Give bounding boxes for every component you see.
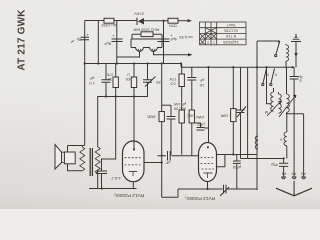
svg-text:Ω50: Ω50	[169, 24, 177, 29]
svg-text:8µF: 8µF	[103, 42, 111, 47]
svg-text:0,5: 0,5	[171, 82, 176, 86]
svg-text:µF: µF	[89, 76, 94, 81]
svg-text:RV12 P2000/₂: RV12 P2000/₂	[114, 192, 144, 198]
svg-text:A2: A2	[291, 172, 297, 177]
svg-text:25: 25	[156, 80, 161, 85]
svg-text:17M: 17M	[170, 77, 177, 81]
svg-text:2: 2	[207, 41, 209, 45]
svg-text:M: M	[265, 110, 268, 115]
svg-text:UWč: UWč	[187, 114, 195, 118]
svg-text:µF0: µF0	[197, 123, 205, 128]
svg-text:≠5µ: ≠5µ	[270, 163, 277, 168]
svg-text:µF08: µF08	[233, 165, 241, 169]
svg-text:RV12 P2000/₁: RV12 P2000/₁	[185, 195, 215, 201]
svg-text:A1: A1	[281, 172, 287, 177]
svg-text:1 0: 1 0	[88, 81, 94, 86]
svg-text:UWi: UWi	[221, 114, 229, 119]
svg-text:3MΩ: 3MΩ	[147, 114, 156, 119]
svg-text:µF: µF	[165, 161, 170, 166]
svg-text:14(09/25: 14(09/25	[222, 40, 239, 45]
svg-text:005: 005	[126, 77, 132, 81]
svg-text:5: 5	[275, 73, 277, 77]
svg-text:8.719: 8.719	[225, 34, 236, 39]
svg-text:ca 0,33: ca 0,33	[179, 35, 193, 40]
svg-text:4-5-7: 4-5-7	[111, 176, 121, 181]
svg-text:5µ: 5µ	[299, 75, 303, 79]
svg-text:6: 6	[299, 79, 301, 83]
svg-text:A3: A3	[300, 172, 306, 177]
svg-text:50µ 50: 50µ 50	[173, 107, 186, 112]
svg-text:+: +	[112, 34, 115, 39]
svg-text:10: 10	[199, 83, 204, 88]
svg-text:2×SV: 2×SV	[134, 12, 144, 17]
svg-text:9uo7: 9uo7	[226, 23, 236, 28]
svg-text:+: +	[86, 32, 89, 37]
svg-text:30: 30	[108, 77, 112, 81]
svg-text:8µ: 8µ	[76, 38, 81, 43]
svg-text:AT 217 GWK: AT 217 GWK	[17, 9, 28, 71]
svg-text:M.1736: M.1736	[224, 29, 238, 34]
svg-text:µF: µF	[199, 78, 204, 83]
svg-text:V: V	[279, 138, 282, 143]
svg-text:27K: 27K	[106, 73, 113, 77]
svg-text:+: +	[170, 33, 173, 38]
svg-text:UWč: UWč	[196, 115, 205, 120]
svg-text:1: 1	[213, 41, 215, 45]
svg-text:µF UW: µF UW	[174, 102, 187, 107]
svg-text:Au 1292: Au 1292	[101, 23, 117, 28]
svg-text:3: 3	[201, 41, 203, 45]
svg-text:AEG 1292 BW: AEG 1292 BW	[133, 28, 159, 33]
svg-text:5: 5	[267, 73, 269, 77]
